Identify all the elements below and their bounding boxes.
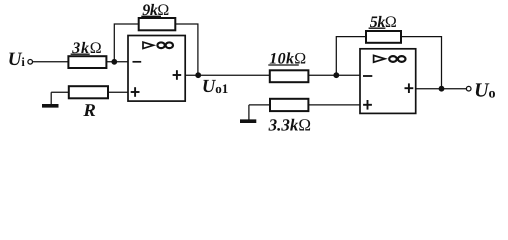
wire R to op-amp U1 non-inverting input xyxy=(108,91,128,93)
op-amp U1 body xyxy=(128,36,185,102)
resistor R box xyxy=(69,86,108,98)
svg-text:Uo: Uo xyxy=(474,79,495,101)
wire 3.3k to op-amp U2 non-inverting input xyxy=(308,104,360,106)
junction node U1 output xyxy=(195,72,201,78)
resistor R5 3.3k box xyxy=(270,99,308,111)
junction node inverting input U2 xyxy=(333,72,339,78)
ground 1 stub xyxy=(50,92,52,104)
input terminal Ui xyxy=(28,60,33,65)
resistor R2 9k box xyxy=(139,18,176,30)
label 5k underline xyxy=(369,27,386,29)
wire 9k to output node vertical down xyxy=(175,24,198,75)
wire R1 to op-amp U1 inverting input xyxy=(106,61,128,63)
label 3k underline xyxy=(71,53,90,55)
ground 1 bar xyxy=(42,104,59,108)
wire U1 output to 10k xyxy=(185,74,270,76)
wire input to R1 xyxy=(33,61,69,63)
junction node inverting input U1 xyxy=(111,59,117,65)
op-amp U2 output marker xyxy=(405,83,414,93)
ground 2 stub xyxy=(248,105,250,120)
op-amp U1 inverting marker xyxy=(133,61,142,63)
op-amp U2 body xyxy=(360,49,416,114)
op-amp U2 infinity symbol xyxy=(389,56,405,62)
svg-text:R: R xyxy=(82,100,96,120)
resistor R3 10k box xyxy=(270,70,309,82)
wire ground to R xyxy=(51,91,69,93)
junction node U2 output xyxy=(439,86,445,92)
op-amp U1 non-inverting marker xyxy=(131,87,140,97)
op-amp U2 gain triangle xyxy=(374,55,385,62)
wire feedback up to 5k xyxy=(336,37,366,76)
resistor R1 3k box xyxy=(68,56,106,68)
wire 10k to op-amp U2 inverting input xyxy=(308,74,360,76)
resistor R4 5k box xyxy=(366,31,401,43)
label 9k underline xyxy=(141,15,161,17)
label 10k underline xyxy=(268,64,299,66)
wire U2 output xyxy=(416,88,467,90)
output terminal Uo xyxy=(466,86,471,91)
wire feedback left vertical up to 9k xyxy=(114,24,138,62)
op-amp U1 output marker xyxy=(173,70,182,80)
svg-text:Uo1: Uo1 xyxy=(202,77,228,97)
op-amp U1 infinity symbol xyxy=(157,42,173,48)
op-amp U2 non-inverting marker xyxy=(363,100,372,110)
ground 2 bar xyxy=(240,119,256,123)
op-amp U2 inverting marker xyxy=(363,75,372,77)
op-amp U1 gain triangle xyxy=(143,42,153,48)
wire 5k to U2 output node vertical down xyxy=(401,37,442,89)
wire ground 2 to 3.3k xyxy=(249,104,270,106)
svg-text:Ui: Ui xyxy=(8,49,26,70)
svg-text:3.3kΩ: 3.3kΩ xyxy=(268,116,311,135)
